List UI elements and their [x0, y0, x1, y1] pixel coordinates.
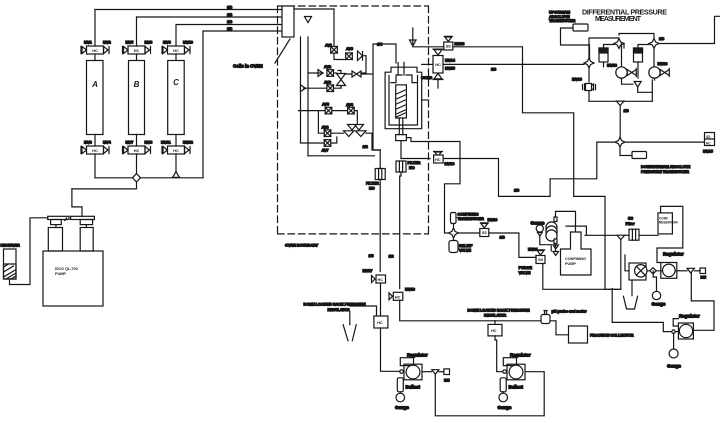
valve AV7 — [324, 140, 331, 147]
vessel funnel waste left — [343, 325, 356, 341]
svg-text:MV6: MV6 — [145, 40, 154, 45]
wire triangle drop to drain — [605, 240, 621, 290]
regulator bottom right — [678, 323, 693, 339]
svg-text:pH probe and meter: pH probe and meter — [552, 309, 588, 314]
svg-text:MV4: MV4 — [103, 140, 112, 145]
valve hourglass between AV2 and AV3 — [337, 71, 346, 89]
svg-text:MV19: MV19 — [572, 77, 583, 82]
svg-text:MV18: MV18 — [607, 63, 618, 68]
gauge bottom left — [396, 393, 405, 402]
svg-text:VALVE: VALVE — [459, 248, 471, 253]
valve AV1 — [331, 47, 338, 54]
svg-text:MV25: MV25 — [703, 149, 714, 154]
svg-text:SS: SS — [706, 135, 710, 139]
svg-text:MV18: MV18 — [405, 287, 416, 292]
svg-text:HC: HC — [378, 277, 384, 282]
svg-text:AV2: AV2 — [324, 64, 332, 69]
svg-text:Regulator: Regulator — [407, 353, 428, 358]
svg-text:B: B — [134, 80, 140, 89]
svg-text:MV14: MV14 — [445, 58, 456, 63]
transducer 20M right — [634, 48, 643, 62]
node triangle junction BH bottom — [432, 370, 439, 375]
wire differential block left vertical — [588, 68, 590, 101]
svg-text:RESERVOIR: RESERVOIR — [659, 220, 678, 224]
wire ballast to gauge left — [399, 392, 401, 394]
valve AV5 — [325, 107, 332, 114]
svg-text:Filter: Filter — [626, 221, 635, 226]
valve sampling striped circle — [629, 263, 646, 280]
regulator dome BPR right HC box — [488, 324, 502, 336]
wire bottom manifold — [95, 177, 203, 179]
node cross junction confining — [449, 228, 459, 238]
wire reactor annulus confining line — [406, 138, 460, 233]
wire column C top stem — [175, 25, 177, 47]
wire transducer2 top elbow to cross2 — [638, 45, 649, 49]
node small funnel under gauge — [538, 233, 543, 237]
svg-text:AV9: AV9 — [346, 46, 354, 51]
vessel reactor inner flange step — [391, 75, 417, 83]
valve assembly MV11/MV12 bottom of column C — [162, 146, 190, 154]
wire column A bottom to manifold — [94, 154, 96, 178]
pump cylinder right — [80, 228, 93, 252]
column B vessel — [129, 61, 145, 135]
wire column A bottom stem — [94, 135, 96, 147]
svg-text:FRACTION COLLECTOR: FRACTION COLLECTOR — [590, 333, 634, 338]
svg-text:HC: HC — [369, 185, 375, 190]
wire differential block top loop — [589, 34, 654, 59]
wire stem HC box to column A — [94, 54, 96, 61]
svg-text:MV16: MV16 — [445, 161, 456, 166]
svg-text:MV1: MV1 — [84, 40, 93, 45]
regulator mid right box — [661, 263, 677, 279]
node flow arrow into reactor top — [410, 28, 417, 46]
node triangle junction before SS filter — [617, 235, 625, 239]
wire regulator to BH vent — [675, 270, 687, 272]
svg-text:VALVE: VALVE — [519, 270, 531, 275]
valve MV25 vent — [705, 133, 715, 140]
node triangle junction block bottom — [616, 101, 624, 105]
svg-text:Gauge: Gauge — [652, 302, 666, 307]
svg-text:Gauge: Gauge — [531, 221, 545, 226]
wire BH tee down and across to right regulator — [435, 372, 544, 416]
wire pump outlet zigzag — [72, 189, 82, 216]
vessel FRACTION COLLECTOR — [569, 326, 588, 343]
wire sampler drip into beaker — [625, 255, 632, 297]
wire HC box down to left bottom regulator — [381, 328, 401, 371]
svg-text:MV2: MV2 — [103, 40, 112, 45]
pump ISCO QL-700 body — [43, 251, 103, 306]
valve BH square mid — [700, 268, 706, 274]
node flow arrow on V2 — [305, 17, 312, 23]
svg-text:HC: HC — [377, 320, 383, 325]
wire filter2 to MV18 drop — [400, 172, 401, 289]
wire triangle to SS filter — [625, 234, 629, 236]
vessel reactor inner shell wall — [389, 76, 418, 126]
svg-text:MV3: MV3 — [84, 140, 93, 145]
wire L4 from bottom manifold riser to oven coils — [203, 30, 282, 32]
vessel receiver bottle — [4, 249, 17, 279]
svg-text:HC: HC — [435, 157, 441, 162]
wire triangle down to bottom loop — [638, 87, 653, 92]
node triangle junction BH mid — [687, 268, 694, 273]
wire column C bottom to manifold — [175, 154, 177, 178]
wire L1 top manifold line from column A to oven coils — [95, 9, 282, 11]
wire MV15 stem down — [437, 80, 439, 88]
svg-text:PRESSURE TRANSDUCER: PRESSURE TRANSDUCER — [641, 169, 689, 174]
svg-text:A: A — [91, 80, 98, 89]
vessel reactor bottom stem and flange — [399, 118, 403, 135]
node diamond junction between sampler and regulator — [650, 268, 656, 274]
svg-text:C: C — [173, 78, 179, 87]
valve MV14/MV15 HC cylinder — [433, 49, 443, 79]
wire column B bottom to manifold — [136, 154, 138, 178]
wire MV13 bypass to downstream section — [453, 47, 605, 289]
svg-text:PUMP: PUMP — [565, 261, 576, 266]
check valve manifold right on pump — [71, 216, 95, 219]
svg-text:BH: BH — [701, 275, 707, 280]
wire coil bottom to purge valve top — [555, 244, 557, 252]
svg-text:MV10: MV10 — [183, 40, 193, 45]
gauge mid right — [652, 291, 660, 299]
wire regulator top stem — [657, 252, 661, 263]
valve MV13 with SS body — [444, 36, 453, 50]
node coupling triangles pair right — [352, 71, 361, 77]
wire pump head stems — [56, 225, 87, 228]
wire riser from bottom manifold up to line L4 — [202, 31, 204, 178]
svg-text:AV1: AV1 — [325, 43, 333, 48]
wire stem HC box to column C — [175, 54, 177, 61]
wire vertical V2 from coils — [307, 37, 309, 156]
node triangle junction mid block — [634, 82, 641, 88]
valve assembly MV5/MV6 top of column B — [123, 46, 151, 54]
valve BH square bottom — [444, 369, 450, 375]
valve AV2 — [327, 70, 334, 77]
wire purge valve bottom drain — [543, 264, 621, 290]
wire V1 to AV3 — [304, 87, 327, 89]
wire coil top to confining pump neck — [556, 211, 576, 232]
valve assembly MV7/MV8 bottom of column B — [123, 146, 151, 154]
coil end fittings — [554, 217, 557, 222]
regulator dome BPR left HC box — [374, 316, 388, 328]
wire downstream cross to MV25 — [625, 141, 704, 143]
valve assembly MV9/MV10 top of column C — [162, 46, 190, 54]
svg-text:SS: SS — [628, 216, 633, 221]
valve AV3 — [327, 85, 334, 92]
node flow arrow on V1 to AV3 — [301, 85, 306, 92]
svg-text:MV23: MV23 — [658, 61, 669, 66]
wire block bottom loop — [589, 100, 652, 102]
wire feed from pump to diamond junction — [72, 182, 137, 189]
svg-text:HC: HC — [491, 328, 497, 333]
transducer downstream absolute cylinder — [632, 152, 647, 159]
svg-text:MV11: MV11 — [161, 140, 171, 145]
wire column B top stem — [136, 17, 138, 46]
node triangle couplings below coil — [553, 245, 559, 256]
wire transducer1 stem to MV18 — [604, 44, 622, 67]
wire downstream cross stub to transducer — [620, 147, 632, 155]
svg-text:BH: BH — [444, 378, 450, 383]
wire V1 to AV7 — [301, 142, 325, 144]
valve assembly MV3/MV4 bottom of column A — [81, 146, 109, 154]
wire drain line into bottom right regulator — [612, 289, 672, 332]
svg-text:MV13: MV13 — [455, 41, 466, 46]
wire confining cross to MV20 — [459, 232, 480, 234]
valve MV23 circle valve — [649, 67, 670, 78]
pump confining body — [561, 232, 592, 275]
wire confining transducer stem — [453, 224, 455, 229]
vessel beaker sample right — [623, 296, 637, 309]
wire AV6 row to filter drop — [331, 133, 380, 150]
regulator bottom left — [400, 358, 422, 380]
wire AV9 branch down to AV2 row — [361, 56, 366, 73]
check valve manifold left on pump — [48, 216, 69, 219]
svg-text:TRANSDUCER: TRANSDUCER — [458, 216, 485, 221]
svg-text:MV5: MV5 — [126, 40, 135, 45]
filter F2 under reactor — [396, 161, 406, 172]
svg-text:AV7: AV7 — [322, 147, 329, 152]
wire filter1 drop through oven boundary to MV17 — [379, 150, 381, 272]
wire MV20 to purge valve MV21 — [489, 233, 536, 260]
transducer confining — [451, 213, 457, 224]
wire AV7 to T-bowties — [331, 137, 337, 143]
wire reactor right stub — [422, 99, 429, 101]
wire stem HC box to column B — [136, 54, 138, 61]
gauge bottom right — [669, 349, 678, 358]
node diamond junction below column B — [133, 174, 141, 183]
node triangle junction below column C — [173, 172, 180, 178]
node junction dot bottom right regulator — [672, 330, 675, 333]
wire hourglass couplings to reactor feed — [346, 73, 374, 75]
svg-text:MV15: MV15 — [445, 66, 456, 71]
wire column A top stem — [94, 10, 96, 47]
wire transducer1 top elbow to cross1 — [604, 44, 625, 49]
wire AV3 to hourglass bottom — [334, 86, 342, 89]
wire V2 lower segment to reactor line — [308, 155, 375, 157]
wire MV23 bottom to block bottom — [652, 78, 654, 101]
wire L2 from column B to oven coils — [137, 16, 283, 18]
valve relief below confining cross — [453, 238, 455, 241]
svg-text:Regulator: Regulator — [510, 353, 531, 358]
wire ballast to gauge right — [502, 392, 504, 394]
wire vertical V1 from coils — [300, 37, 302, 142]
wire MV15 line to differential block — [443, 63, 584, 65]
valve MV17 with HC body — [372, 276, 376, 283]
wire V1 row to AV5 — [299, 110, 326, 112]
wire reservoir loop over to regulator drop — [657, 206, 683, 252]
svg-text:MV7: MV7 — [126, 140, 134, 145]
svg-text:HC: HC — [395, 295, 401, 300]
wire right HC box stem from pH line — [494, 321, 496, 325]
wire BH triangle down to bottom-right regulator — [691, 273, 714, 330]
svg-text:Gauge: Gauge — [395, 405, 409, 410]
wire left regulator to BH tee — [422, 371, 432, 373]
hatch reactor packing — [396, 90, 405, 117]
wire AV6 feed drop — [318, 111, 324, 134]
svg-text:Regulator: Regulator — [679, 314, 700, 319]
transducer 2M left — [599, 48, 608, 62]
wire V2 to AV2 — [308, 72, 323, 74]
wire block bottom down to downstream cross — [619, 106, 621, 138]
pump cylinder left — [48, 228, 62, 252]
gauge confining pump circle — [536, 225, 543, 232]
svg-text:Gauge: Gauge — [667, 364, 681, 369]
valve MV19 — [583, 84, 596, 90]
svg-text:MV12: MV12 — [183, 140, 194, 145]
node cross junction downstream — [615, 137, 625, 147]
valve AV4 — [348, 107, 355, 114]
node cross junction left of differential block — [584, 58, 594, 68]
valve MV18 circle valve — [616, 67, 637, 78]
svg-text:AV6: AV6 — [322, 125, 330, 130]
hatch receiver lower half — [4, 264, 17, 279]
svg-text:Gauge: Gauge — [498, 405, 512, 410]
transducer upstream absolute cylinder — [573, 24, 588, 31]
wire cross2 down to MV23 — [653, 49, 655, 67]
wire reactor to MV14 line — [422, 63, 433, 65]
wire AV4 down to coupling — [354, 111, 357, 124]
wire L3 from column C to oven coils — [176, 24, 282, 26]
svg-text:Ballast: Ballast — [406, 385, 421, 390]
vessel CONF RESERVOIR — [658, 213, 672, 234]
svg-text:OVEN BOUNDARY: OVEN BOUNDARY — [285, 243, 319, 248]
wire gauge to purge tee — [540, 236, 551, 251]
svg-text:HC: HC — [706, 141, 711, 145]
wire MV17 down to dome BPR — [380, 283, 382, 316]
wire upstream transducer to left cross — [561, 28, 590, 58]
wire junction to regulator — [675, 331, 678, 333]
valve assembly MV1/MV2 with HC handle, top of column A — [81, 46, 109, 54]
node T-bowties on AV6 outlet row — [344, 131, 367, 137]
node flow arrow to AV2 — [318, 70, 323, 77]
filter SS — [629, 229, 639, 240]
wire reactor left feed line — [373, 44, 396, 150]
vessel reactor outer shell with flanges — [385, 67, 422, 129]
coil pulse damper — [546, 222, 557, 233]
svg-text:AV4: AV4 — [346, 102, 354, 107]
svg-text:MV20: MV20 — [488, 217, 498, 222]
wire SS filter to confining reservoir — [639, 234, 658, 236]
wire confining loop to SS filter line — [566, 226, 616, 235]
gauge bottom mid-right — [499, 393, 508, 402]
svg-text:COND: COND — [421, 75, 432, 80]
svg-text:MV9: MV9 — [163, 40, 172, 45]
sensor pH probe — [544, 311, 547, 315]
svg-text:Ballast: Ballast — [509, 385, 524, 390]
svg-text:REGULATOR: REGULATOR — [484, 313, 506, 318]
filter F1 on left oven outlet — [375, 169, 385, 180]
wire sampler to regulator — [647, 270, 663, 272]
wire MV18 lower down and right to pH line — [400, 300, 541, 321]
regulator bottom mid-right — [503, 358, 525, 380]
vessel reactor inner tube — [396, 85, 407, 118]
valve MV21 purge with SS body — [536, 250, 545, 264]
node cross junction top-left in block — [614, 39, 624, 49]
svg-text:MV8: MV8 — [145, 140, 154, 145]
wire coil outlet to AV1 — [294, 9, 334, 46]
svg-text:PUMP: PUMP — [55, 271, 66, 276]
wire AV2 to hourglass — [334, 72, 337, 74]
wire pH probe to fraction collector — [550, 321, 569, 335]
wire block top right to edge and down to MV25 line — [659, 16, 720, 43]
node cross junction top-right in block — [649, 39, 659, 49]
svg-text:HC: HC — [409, 165, 415, 170]
svg-text:MEASUREMENT: MEASUREMENT — [595, 14, 642, 23]
ballast cylinder left — [397, 378, 403, 392]
valve MV16 with HC body — [434, 152, 443, 157]
svg-text:REGULATOR: REGULATOR — [328, 307, 350, 312]
wire diamond to gauge — [653, 271, 656, 291]
node coupling triangles below AV4 — [348, 125, 364, 131]
valve MV20 with SS body — [480, 223, 489, 237]
wire MV16 branch — [401, 158, 430, 160]
svg-text:MV17: MV17 — [363, 268, 373, 273]
valve AV6 — [324, 130, 331, 137]
wire MV13 line into oven — [413, 46, 444, 48]
svg-text:Coils in OVEN: Coils in OVEN — [233, 64, 263, 69]
column A vessel — [87, 61, 104, 135]
svg-text:Regulator: Regulator — [663, 252, 684, 257]
wire column B bottom stem — [136, 135, 138, 147]
heat-exchange coils box in oven — [282, 6, 294, 37]
wire junction down to gauge — [673, 333, 675, 349]
wire transducer2 stem to triangle — [637, 62, 639, 78]
oven boundary dashed box — [278, 6, 429, 234]
vessel reactor neck — [398, 63, 404, 76]
node tick between check valves — [65, 218, 67, 220]
valve MV18 lower with HC body — [389, 293, 393, 300]
wire column C bottom stem — [175, 135, 177, 147]
svg-text:RECEIVER: RECEIVER — [1, 243, 20, 248]
valve AV9 — [346, 53, 353, 60]
wire AV1 to AV9 branch — [334, 53, 346, 59]
wire right HC box down to right bottom regulator — [495, 336, 503, 372]
wire reactor bottom to filter2 — [400, 141, 402, 159]
wire AV5 to AV4 — [332, 110, 348, 112]
svg-text:AV3: AV3 — [324, 80, 332, 85]
column C vessel — [168, 61, 185, 135]
wire receiver to pump inlet — [10, 218, 48, 285]
ballast cylinder right — [500, 378, 506, 392]
wire MV16 bypass line to downstream cross — [443, 142, 615, 196]
svg-text:AV5: AV5 — [322, 102, 330, 107]
svg-text:TRANSDUCER: TRANSDUCER — [549, 18, 576, 23]
node coupling triangle right of AV9 — [358, 51, 363, 61]
wire MV18 bottom to mid triangle — [622, 78, 634, 84]
wire dome label bracket and vent to funnel — [350, 306, 377, 325]
